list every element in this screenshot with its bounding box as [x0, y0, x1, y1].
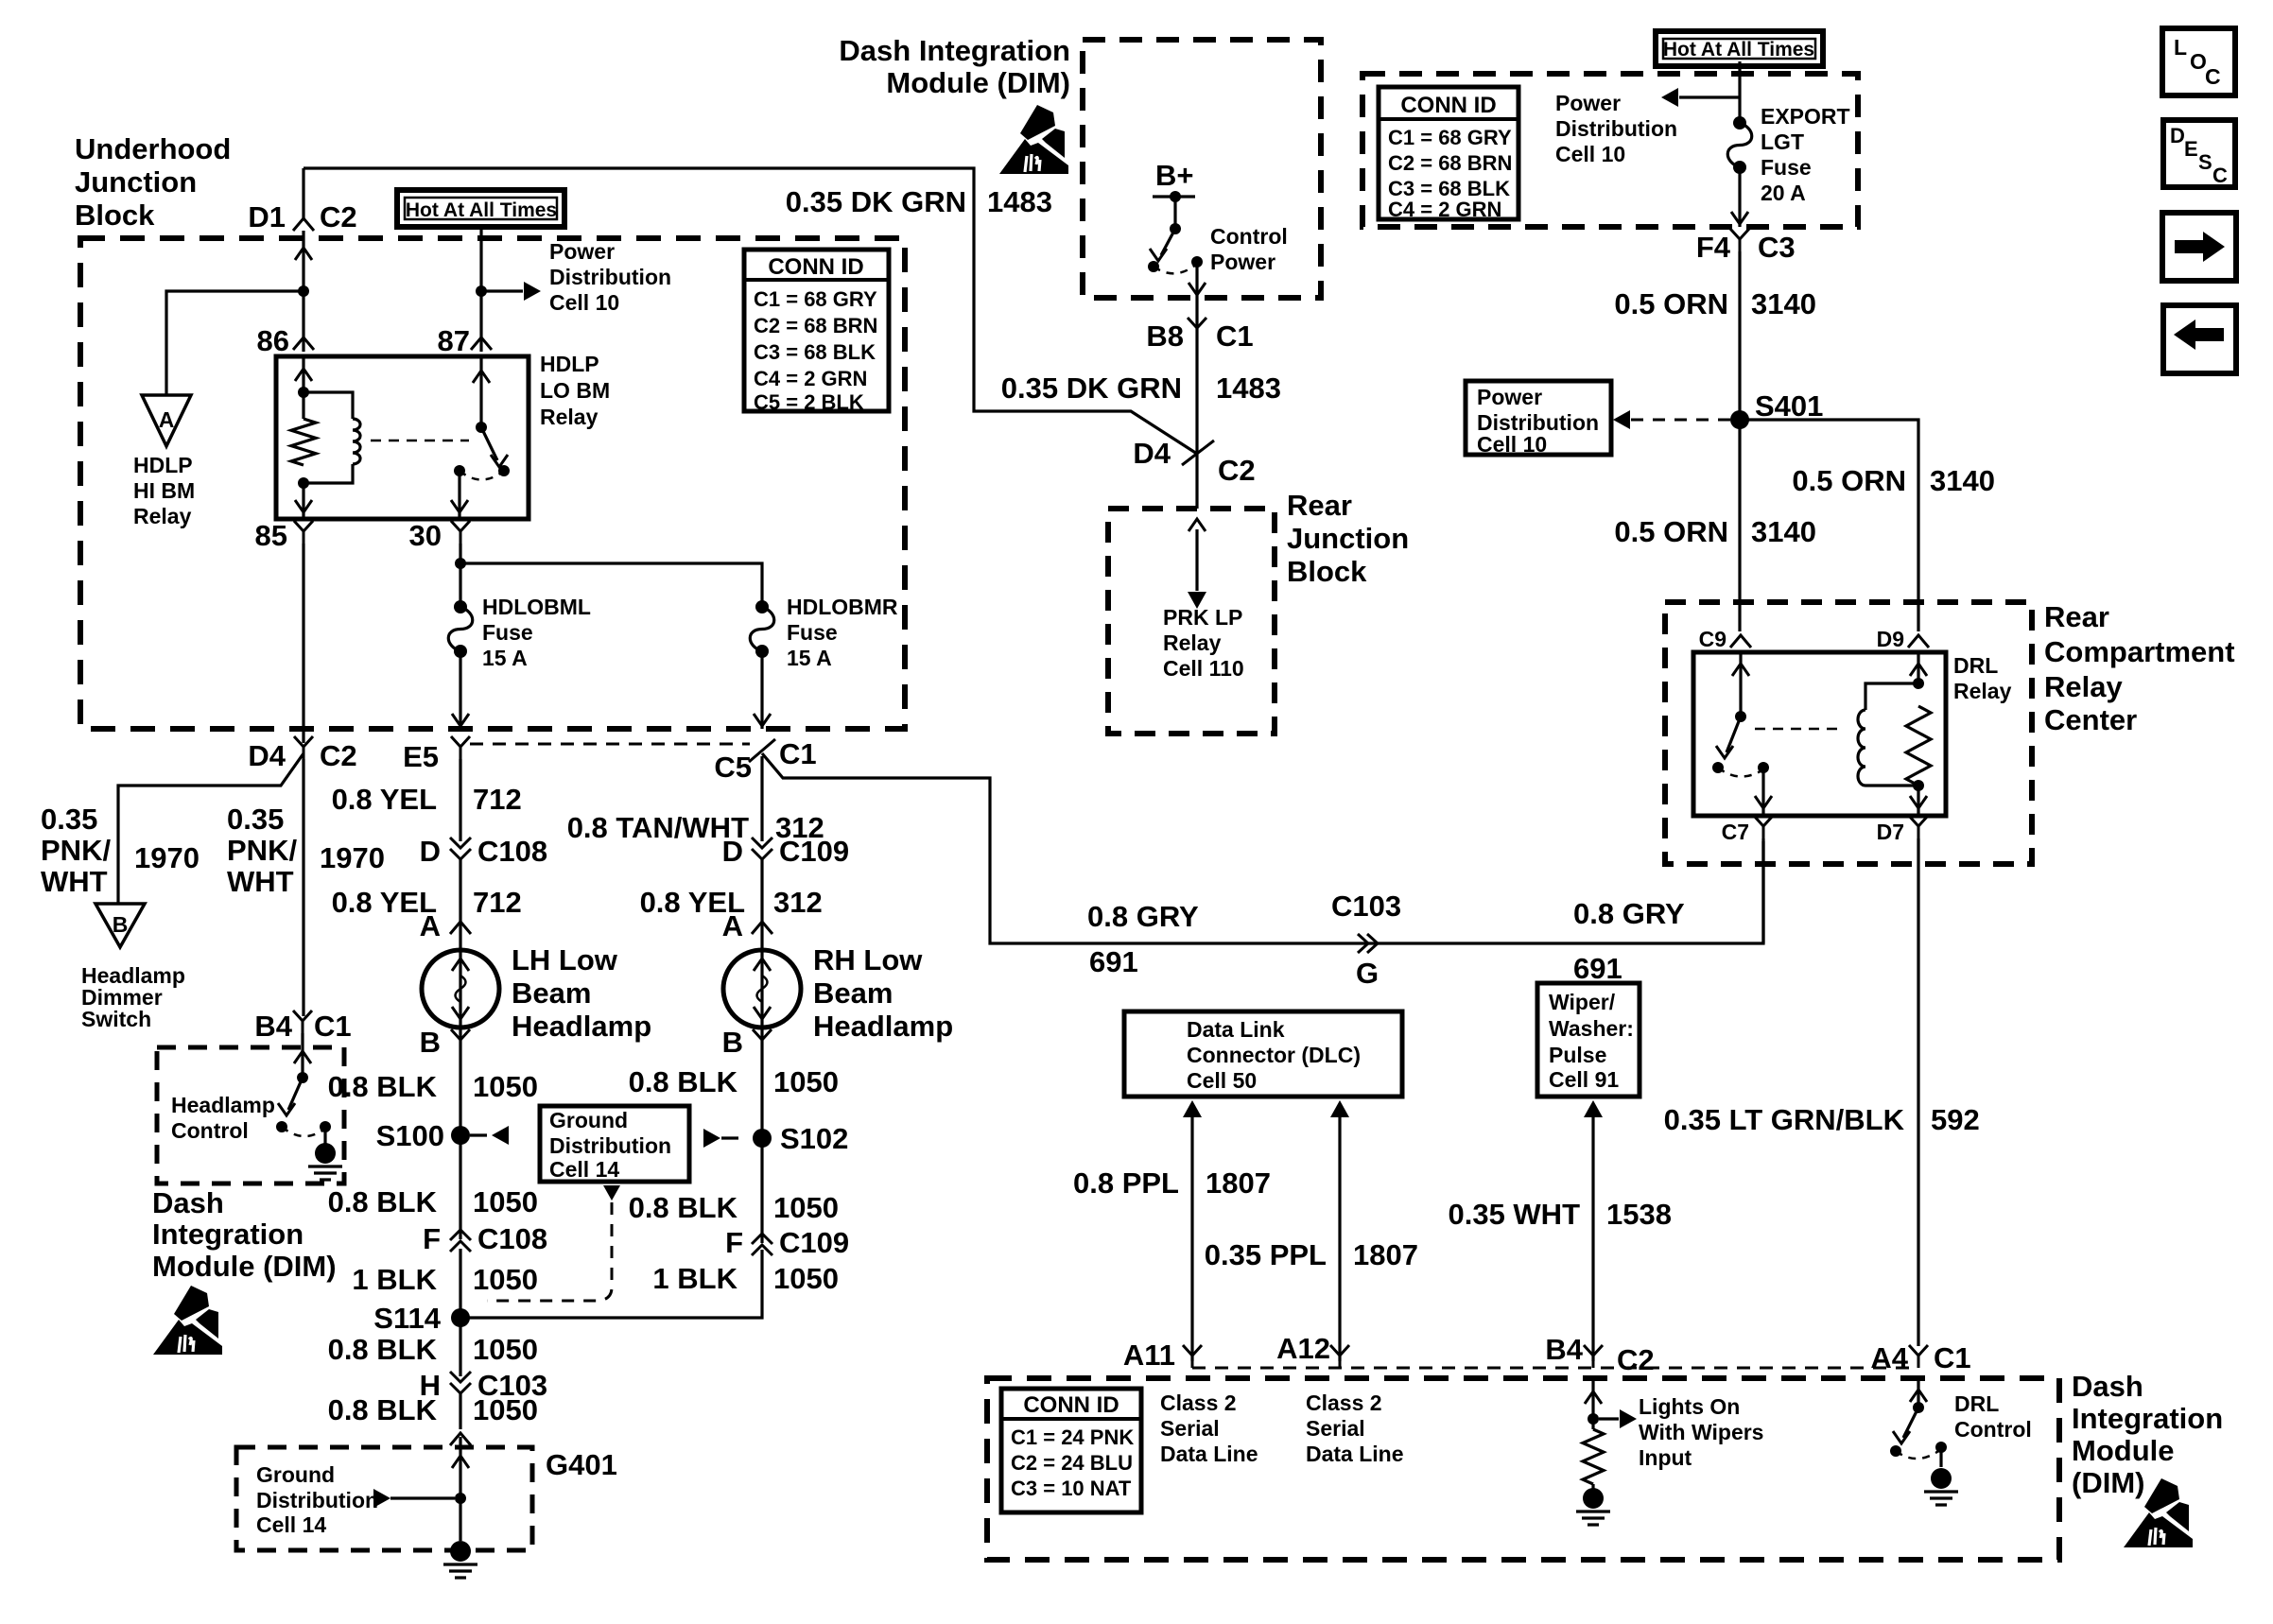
svg-text:G: G [1356, 957, 1379, 990]
pin C9 [1699, 627, 1751, 651]
svg-text:G401: G401 [546, 1448, 617, 1481]
label 0.35 PNK/WHT 1970 (first) [41, 803, 200, 898]
svg-text:Connector (DLC): Connector (DLC) [1187, 1043, 1361, 1067]
svg-text:CONN ID: CONN ID [768, 254, 863, 280]
wire S114 to RH F C109 [460, 1250, 762, 1318]
svg-text:(DIM): (DIM) [2072, 1466, 2144, 1499]
wire S401 branch to D9 [1740, 420, 1918, 631]
connector F / C109 [725, 1226, 849, 1259]
svg-text:712: 712 [473, 886, 522, 919]
svg-text:Relay: Relay [133, 504, 192, 528]
svg-text:691: 691 [1573, 952, 1622, 985]
svg-text:0.8 GRY: 0.8 GRY [1087, 900, 1199, 933]
wire D1/C2 to relay pin 86 [295, 231, 312, 352]
connector C103 / G [1331, 890, 1401, 990]
svg-text:C7: C7 [1722, 820, 1749, 844]
wire C7 down to 0.8 GRY run [1761, 838, 1764, 943]
relay K1 HDLP LO BM Relay box [276, 356, 529, 519]
label 1 BLK 1050 (RH) [652, 1262, 839, 1295]
CONN ID table (rear junction block) [1379, 87, 1518, 221]
pin B LH headlamp [420, 1026, 470, 1059]
svg-text:Rear: Rear [1287, 489, 1352, 522]
svg-text:B8: B8 [1146, 320, 1184, 353]
svg-text:C2 = 24 BLU: C2 = 24 BLU [1011, 1451, 1133, 1475]
svg-text:Data Line: Data Line [1160, 1442, 1258, 1466]
connector into G401 [450, 1433, 471, 1445]
label 0.5 ORN 3140 (lower) [1614, 515, 1816, 548]
connector D4/C2 [248, 736, 356, 772]
svg-text:592: 592 [1931, 1103, 1980, 1136]
svg-text:1050: 1050 [473, 1185, 538, 1218]
svg-text:0.8 BLK: 0.8 BLK [629, 1065, 738, 1098]
svg-text:Power: Power [549, 239, 615, 264]
svg-text:86: 86 [257, 324, 289, 357]
wire B4/C2 to Wiper Washer [1584, 1100, 1603, 1361]
svg-text:B+: B+ [1155, 159, 1194, 192]
svg-text:Hot At All Times: Hot At All Times [406, 199, 557, 221]
svg-text:Compartment: Compartment [2044, 635, 2235, 668]
svg-text:0.35 DK GRN: 0.35 DK GRN [786, 185, 966, 218]
svg-text:1050: 1050 [773, 1065, 839, 1098]
svg-text:Module (DIM): Module (DIM) [886, 66, 1070, 99]
svg-text:Control: Control [1954, 1417, 2032, 1442]
connector F4/C3 [1696, 229, 1796, 264]
LH Low Beam Headlamp lamp [422, 950, 499, 1028]
LOC button [2162, 28, 2235, 95]
svg-text:DRL: DRL [1953, 653, 1998, 678]
wire F4/C3 to S401 [1738, 251, 1741, 420]
wire fuse to F4/C3 [1731, 167, 1748, 227]
svg-text:1483: 1483 [987, 185, 1052, 218]
svg-text:Input: Input [1639, 1445, 1692, 1470]
Hot At All Times flag (left) [397, 190, 564, 227]
dashed pointer S401 to Power Distribution [1613, 410, 1730, 429]
svg-text:C1 = 24 PNK: C1 = 24 PNK [1011, 1425, 1134, 1449]
relay K1 resistor [291, 419, 316, 465]
connector B4/C1 [254, 1010, 351, 1043]
fuse HDLOBML 15A [454, 600, 467, 613]
connector A11 [1123, 1339, 1202, 1372]
svg-text:C5: C5 [714, 751, 752, 784]
svg-text:Relay: Relay [1163, 631, 1222, 655]
svg-text:Relay: Relay [1953, 679, 2012, 703]
svg-text:HI BM: HI BM [133, 478, 195, 503]
svg-text:Distribution: Distribution [1555, 116, 1677, 141]
label 0.8 TAN/WHT 312 [567, 811, 824, 844]
svg-text:A12: A12 [1276, 1332, 1330, 1365]
wire into G401 ground [452, 1437, 469, 1541]
svg-text:Cell 10: Cell 10 [1477, 432, 1547, 457]
Rear Compartment Relay Center dashed box [1665, 602, 2032, 864]
svg-text:Dash Integration: Dash Integration [839, 34, 1070, 67]
svg-text:20 A: 20 A [1761, 181, 1806, 205]
wire pin 85 to D4/C2 [302, 544, 304, 743]
svg-text:Cell 14: Cell 14 [549, 1157, 619, 1182]
svg-text:1050: 1050 [473, 1393, 538, 1426]
svg-text:1050: 1050 [773, 1262, 839, 1295]
svg-text:D4: D4 [248, 739, 286, 772]
label 0.8 BLK 1050 (LH upper) [328, 1070, 538, 1103]
svg-text:WHT: WHT [41, 865, 108, 898]
pin D7 [1877, 816, 1928, 844]
svg-text:Beam: Beam [813, 976, 893, 1010]
svg-text:0.8 BLK: 0.8 BLK [328, 1185, 438, 1218]
svg-text:C109: C109 [779, 835, 849, 868]
svg-text:0.35: 0.35 [41, 803, 97, 836]
svg-text:Rear: Rear [2044, 600, 2109, 633]
svg-text:C4 = 2 GRN: C4 = 2 GRN [1388, 198, 1501, 221]
relay K2 coil-switch dashed link [1755, 728, 1844, 731]
splice S100 [376, 1119, 470, 1152]
pin 86 [257, 324, 314, 357]
svg-text:0.8 BLK: 0.8 BLK [328, 1393, 438, 1426]
svg-text:Data Line: Data Line [1306, 1442, 1404, 1466]
svg-text:Center: Center [2044, 703, 2137, 736]
fuse EXPORT LGT 20A [1733, 116, 1746, 130]
svg-text:Module (DIM): Module (DIM) [152, 1250, 337, 1283]
svg-text:PRK LP: PRK LP [1163, 605, 1242, 630]
wire to HDLP HI BM triangle A [166, 291, 304, 395]
svg-text:Distribution: Distribution [549, 1133, 671, 1158]
svg-text:A11: A11 [1123, 1339, 1175, 1372]
label 0.5 ORN 3140 (branch) [1792, 464, 1995, 497]
svg-text:Class 2: Class 2 [1160, 1391, 1237, 1415]
svg-text:C1: C1 [1934, 1341, 1971, 1374]
Power Distribution Cell 10 box (middle) [1466, 381, 1611, 457]
svg-text:HDLP: HDLP [133, 453, 193, 477]
wire C109 to RH headlamp [760, 859, 763, 950]
label 0.8 YEL 312 [640, 886, 823, 919]
wire A11 to DLC [1183, 1100, 1202, 1361]
svg-text:1807: 1807 [1206, 1166, 1271, 1200]
svg-text:Block: Block [75, 199, 155, 232]
svg-text:A: A [420, 909, 441, 942]
svg-text:Dash: Dash [2072, 1370, 2143, 1403]
svg-text:Headlamp: Headlamp [813, 1010, 953, 1043]
svg-text:E: E [2184, 137, 2198, 161]
svg-text:C1 = 68 GRY: C1 = 68 GRY [1388, 126, 1512, 149]
wire Hot-At-All-Times to relay pin 87 [479, 227, 482, 352]
svg-text:0.35 WHT: 0.35 WHT [1448, 1198, 1580, 1231]
label 0.35 WHT 1538 [1448, 1198, 1672, 1231]
pin C7 [1722, 816, 1773, 844]
svg-text:Relay: Relay [2044, 670, 2123, 703]
headlamp control switch [276, 1033, 331, 1144]
Ground Distribution Cell 14 box (middle) [540, 1106, 689, 1182]
svg-text:Switch: Switch [81, 1007, 151, 1031]
connector face dashed line E5-C5 [470, 743, 750, 746]
svg-text:C1: C1 [314, 1010, 352, 1043]
svg-text:Control: Control [171, 1118, 249, 1143]
wire branch to headlamp dimmer switch [118, 753, 304, 904]
wire C108 to S114 [459, 1249, 461, 1376]
svg-text:85: 85 [255, 519, 287, 552]
svg-text:C: C [2212, 164, 2228, 187]
wire DIM to B8/C1 [1195, 297, 1198, 509]
pin A LH headlamp [420, 909, 471, 942]
svg-text:B: B [420, 1026, 441, 1059]
label 0.35 PNK/WHT 1970 (second) [227, 803, 385, 898]
Rear Junction Block dashed box (top right) [1362, 74, 1858, 227]
svg-text:1050: 1050 [473, 1263, 538, 1296]
svg-text:S102: S102 [780, 1122, 848, 1155]
lights-on-with-wipers input resistor [1583, 1378, 1604, 1484]
Wiper Washer Pulse Cell 91 box [1537, 983, 1640, 1097]
svg-text:HDLP: HDLP [540, 352, 599, 376]
svg-text:D4: D4 [1133, 437, 1171, 470]
svg-text:0.35 PPL: 0.35 PPL [1205, 1238, 1327, 1271]
svg-text:Junction: Junction [75, 165, 197, 199]
svg-text:D7: D7 [1877, 820, 1904, 844]
svg-text:D: D [420, 835, 441, 868]
svg-text:Washer:: Washer: [1549, 1016, 1634, 1041]
svg-text:Cell 50: Cell 50 [1187, 1068, 1257, 1093]
label 0.8 BLK 1050 (below S114) [328, 1333, 538, 1366]
wire C5/C1 to 0.8 GRY run [762, 753, 1763, 943]
svg-text:C5 = 2 BLK: C5 = 2 BLK [754, 390, 864, 414]
svg-text:C3 = 10 NAT: C3 = 10 NAT [1011, 1477, 1132, 1500]
svg-text:0.35 LT GRN/BLK: 0.35 LT GRN/BLK [1664, 1103, 1905, 1136]
label 0.5 ORN 3140 (upper) [1614, 287, 1816, 320]
svg-text:691: 691 [1089, 945, 1138, 978]
DRL Control switch [1890, 1378, 1947, 1467]
svg-text:C2 = 68 BRN: C2 = 68 BRN [754, 314, 877, 337]
CONN ID table (DIM bottom) [1001, 1389, 1141, 1512]
ESD symbol (top DIM) [999, 105, 1068, 174]
pin 85 [255, 519, 313, 552]
svg-text:F: F [423, 1222, 441, 1255]
svg-text:1050: 1050 [473, 1070, 538, 1103]
pointer arrow Lights On [1599, 1409, 1637, 1428]
pin D9 [1877, 627, 1929, 651]
RH Low Beam Headlamp lamp [723, 950, 801, 1028]
svg-text:1 BLK: 1 BLK [352, 1263, 437, 1296]
svg-text:Module: Module [2072, 1434, 2175, 1467]
svg-text:0.35: 0.35 [227, 803, 284, 836]
label 0.8 YEL 712 (upper) [332, 783, 522, 816]
relay K2 DRL Relay box [1693, 652, 1946, 816]
svg-text:Headlamp: Headlamp [171, 1093, 275, 1117]
svg-text:B4: B4 [1545, 1333, 1583, 1366]
svg-text:C4 = 2 GRN: C4 = 2 GRN [754, 367, 867, 390]
wire E5 to C108 [459, 759, 461, 841]
svg-text:Lights On: Lights On [1639, 1394, 1740, 1419]
dashed ground-distribution link [487, 1185, 620, 1301]
svg-text:Beam: Beam [512, 976, 591, 1010]
svg-text:0.8 BLK: 0.8 BLK [629, 1191, 738, 1224]
wire fuse HDLOBMR to C5/C1 [754, 651, 771, 729]
label 0.8 BLK 1050 (bottom) [328, 1393, 538, 1426]
svg-text:Cell 10: Cell 10 [1555, 142, 1625, 166]
svg-text:Ground: Ground [256, 1462, 335, 1487]
svg-text:CONN ID: CONN ID [1023, 1392, 1119, 1418]
svg-text:Data Link: Data Link [1187, 1017, 1285, 1042]
svg-text:0.8 PPL: 0.8 PPL [1073, 1166, 1179, 1200]
svg-text:LGT: LGT [1761, 130, 1804, 154]
wire C103 to G401 [459, 1393, 461, 1429]
svg-text:C108: C108 [477, 835, 547, 868]
svg-text:B: B [113, 912, 129, 937]
splice S102 [753, 1122, 848, 1155]
ground (DRL control) [1931, 1468, 1952, 1489]
off-page triangle B (Headlamp Dimmer Switch) [95, 904, 145, 947]
control power switch in DIM [1148, 197, 1206, 297]
wire fuse HDLOBML to E5 [452, 651, 469, 729]
svg-text:Class 2: Class 2 [1306, 1391, 1382, 1415]
svg-text:Fuse: Fuse [787, 620, 838, 645]
svg-text:Headlamp: Headlamp [512, 1010, 651, 1043]
svg-text:Cell 14: Cell 14 [256, 1512, 326, 1537]
ESD symbol (bottom right DIM) [2124, 1478, 2193, 1547]
svg-text:S114: S114 [373, 1302, 441, 1335]
connector D / C108 [420, 835, 548, 868]
ground (wiper input) [1591, 1484, 1594, 1490]
connector face dashed line A11-A4 [1192, 1367, 1918, 1370]
svg-text:PNK/: PNK/ [227, 834, 297, 867]
svg-text:0.5 ORN: 0.5 ORN [1792, 464, 1906, 497]
svg-text:Cell 10: Cell 10 [549, 290, 619, 315]
svg-text:C1: C1 [779, 737, 817, 770]
svg-text:0.8 BLK: 0.8 BLK [328, 1070, 438, 1103]
svg-text:30: 30 [409, 519, 442, 552]
wire Hot At All Times to EXPORT fuse [1738, 61, 1741, 123]
pin A RH headlamp [722, 909, 772, 942]
svg-text:0.8 GRY: 0.8 GRY [1573, 897, 1685, 930]
svg-text:Distribution: Distribution [256, 1488, 378, 1512]
connector B4/C2 (bottom) [1545, 1333, 1654, 1376]
svg-text:Control: Control [1210, 224, 1288, 249]
svg-text:LO BM: LO BM [540, 378, 610, 403]
svg-text:With Wipers: With Wipers [1639, 1420, 1763, 1444]
svg-text:S: S [2198, 150, 2212, 174]
svg-text:0.8 YEL: 0.8 YEL [332, 783, 437, 816]
Data Link Connector DLC Cell 50 box [1124, 1011, 1402, 1097]
Underhood Junction Block dashed box [80, 238, 905, 729]
svg-text:0.5 ORN: 0.5 ORN [1614, 287, 1728, 320]
wire A12 to DLC [1330, 1100, 1349, 1361]
svg-text:A: A [159, 407, 175, 432]
svg-text:C2: C2 [1617, 1343, 1655, 1376]
svg-text:C: C [2205, 64, 2221, 89]
svg-text:Cell 110: Cell 110 [1163, 656, 1244, 681]
svg-text:D9: D9 [1877, 627, 1904, 651]
connector E5 [403, 736, 470, 773]
wire LH headlamp to S100 [459, 1028, 461, 1239]
headlamp control ground [315, 1143, 336, 1164]
svg-text:LH Low: LH Low [512, 943, 618, 976]
ground G401 [450, 1541, 471, 1562]
svg-text:Junction: Junction [1287, 522, 1409, 555]
svg-text:E5: E5 [403, 740, 439, 773]
svg-text:Ground: Ground [549, 1108, 628, 1132]
svg-text:C2 = 68 BRN: C2 = 68 BRN [1388, 151, 1512, 175]
label 0.35 DK GRN 1483 (lower) [1001, 371, 1281, 405]
relay K2 switch [1712, 652, 1772, 816]
svg-text:1483: 1483 [1216, 371, 1281, 405]
svg-text:B4: B4 [254, 1010, 292, 1043]
svg-text:L: L [2174, 35, 2187, 60]
connector C5/C1 inline [714, 737, 816, 784]
svg-text:C3 = 68 BLK: C3 = 68 BLK [754, 340, 876, 364]
wire D7 to A4/C1 [1917, 838, 1919, 1346]
svg-text:C2: C2 [320, 200, 357, 233]
relay K2 coil and resistor [1858, 652, 1931, 816]
Hot At All Times flag (right) [1656, 31, 1823, 66]
svg-text:Power: Power [1555, 91, 1621, 115]
relay K1 lower coil wire to pin 85 [295, 477, 312, 519]
svg-text:HDLOBML: HDLOBML [482, 595, 591, 619]
Headlamp Control dashed box [157, 1047, 344, 1183]
label 0.8 YEL 712 (lower) [332, 886, 522, 919]
svg-text:0.8 BLK: 0.8 BLK [328, 1333, 438, 1366]
label 0.35 PPL 1807 [1205, 1238, 1418, 1271]
pointer S100 to Ground Distribution [470, 1126, 509, 1145]
svg-text:C2: C2 [320, 739, 357, 772]
svg-text:Power: Power [1210, 250, 1275, 274]
svg-text:HDLOBMR: HDLOBMR [787, 595, 898, 619]
CONN ID table (Underhood) [744, 250, 889, 414]
svg-text:D: D [2170, 124, 2185, 147]
pointer arrow to Power Distribution (top right) [1661, 88, 1740, 107]
svg-text:15 A: 15 A [482, 646, 528, 670]
wire S401 to C9 [1738, 420, 1741, 631]
pointer Ground Distribution to S102 [703, 1129, 738, 1148]
label 0.8 PPL 1807 [1073, 1166, 1271, 1200]
svg-text:712: 712 [473, 783, 522, 816]
svg-text:1050: 1050 [473, 1333, 538, 1366]
node junction on pin87 wire [476, 285, 487, 297]
label 0.8 BLK 1050 (RH upper) [629, 1065, 839, 1098]
svg-text:Power: Power [1477, 385, 1542, 409]
label 0.8 BLK 1050 (RH mid) [629, 1191, 839, 1224]
splice S114 [373, 1302, 470, 1335]
B+ terminal [1153, 159, 1195, 202]
previous-page arrow button [2163, 305, 2236, 373]
pointer arrow in G401 [373, 1489, 455, 1508]
svg-text:RH Low: RH Low [813, 943, 923, 976]
svg-text:1970: 1970 [134, 841, 200, 874]
relay K1 coil [304, 392, 360, 483]
svg-text:D1: D1 [248, 200, 286, 233]
svg-text:0.5 ORN: 0.5 ORN [1614, 515, 1728, 548]
svg-text:WHT: WHT [227, 865, 294, 898]
connector A12 [1276, 1332, 1349, 1368]
svg-text:1050: 1050 [773, 1191, 839, 1224]
svg-text:Integration: Integration [152, 1218, 304, 1251]
svg-text:C9: C9 [1699, 627, 1726, 651]
svg-text:Cell 91: Cell 91 [1549, 1067, 1619, 1092]
svg-text:15 A: 15 A [787, 646, 832, 670]
svg-text:3140: 3140 [1751, 287, 1816, 320]
svg-text:C3: C3 [1758, 231, 1796, 264]
label 0.35 LT GRN/BLK 592 [1664, 1103, 1980, 1136]
svg-text:DRL: DRL [1954, 1391, 1999, 1416]
relay K1 coil-switch dashed link [371, 440, 469, 442]
wire C5/C1 down to C109 [760, 756, 763, 841]
svg-text:Serial: Serial [1306, 1416, 1365, 1441]
svg-text:A: A [722, 909, 743, 942]
svg-text:Underhood: Underhood [75, 132, 231, 165]
arrow to Power Distribution Cell 10 [481, 282, 541, 301]
DESC button [2163, 120, 2235, 187]
svg-text:1538: 1538 [1606, 1198, 1672, 1231]
label 0.8 BLK 1050 (LH mid) [328, 1185, 538, 1218]
svg-text:Integration: Integration [2072, 1402, 2223, 1435]
wire 0.8 GRY labels right of C103 [1573, 897, 1685, 985]
connector D / C109 [722, 835, 850, 868]
svg-text:C103: C103 [1331, 890, 1401, 923]
svg-text:1807: 1807 [1353, 1238, 1418, 1271]
